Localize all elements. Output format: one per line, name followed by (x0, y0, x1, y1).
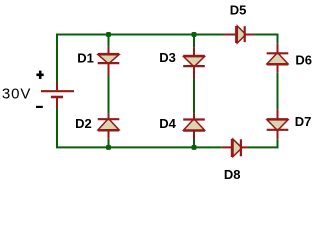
diode D3 (cathode down) (183, 47, 205, 79)
svg-text:30V: 30V (2, 86, 31, 103)
node C bottom junction branch1 (106, 145, 111, 150)
battery plus sign (36, 71, 43, 79)
diode D5 (horizontal, cathode right) (224, 26, 255, 43)
wire branch1 bottom (D2 to node) (108, 139, 110, 148)
wire bottom-left L from battery - down and across to D8 anode (57, 108, 222, 147)
diode D7 (cathode down) (267, 109, 289, 139)
wire branch1 top (node to D1) (108, 35, 110, 47)
wire branch1 mid (D1 to D2) (108, 76, 110, 113)
node D bottom junction branch2 (192, 145, 197, 150)
svg-text:D5: D5 (230, 2, 247, 17)
svg-text:D1: D1 (77, 50, 94, 65)
wire branch2 bottom (D4 to node) (193, 139, 195, 147)
svg-text:D4: D4 (159, 116, 176, 131)
wire branch2 mid (D3 to D4) (193, 79, 195, 113)
wire top-left L from battery + up and across to D5 anode (57, 35, 224, 83)
wire branch2 top (node to D3) (193, 35, 195, 48)
diode D6 (cathode up) (267, 44, 289, 73)
svg-text:D2: D2 (75, 116, 92, 131)
svg-text:D3: D3 (159, 50, 176, 65)
wire bottom-right L from D7 to D8 cathode (248, 139, 278, 147)
battery minus sign (36, 106, 43, 108)
svg-text:D6: D6 (295, 52, 312, 67)
battery V1 30V (41, 82, 74, 109)
diode D4 (cathode up) (183, 113, 205, 139)
diode D2 (cathode up) (98, 113, 120, 138)
wire top-right L from D5 cathode to D6 cathode (254, 35, 277, 44)
svg-text:D7: D7 (295, 114, 312, 129)
diode D1 (cathode down) (98, 47, 120, 76)
wire right mid between D6 and D7 (277, 72, 279, 109)
node B top junction branch2 (192, 32, 197, 37)
node A top junction branch1 (106, 32, 111, 37)
diode D8 (horizontal, cathode right) (222, 139, 248, 157)
svg-text:D8: D8 (224, 167, 241, 182)
